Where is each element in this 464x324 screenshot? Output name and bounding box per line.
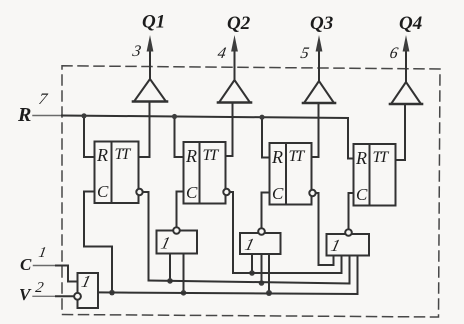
svg-text:C: C — [97, 182, 109, 201]
wire Q1 output with arrow — [149, 50, 151, 78]
wire L3 bus gated clock — [98, 292, 358, 294]
flip-flop TT1 — [95, 142, 139, 204]
svg-text:7: 7 — [37, 91, 49, 108]
wire buffer3 input from TT3 Q — [312, 103, 319, 157]
svg-text:R: R — [271, 147, 283, 167]
svg-text:Q4: Q4 — [399, 13, 422, 34]
svg-text:3: 3 — [130, 43, 142, 60]
junction R-FF1 — [81, 113, 86, 118]
inverter bubble TT3 output — [309, 190, 315, 196]
junction clock-TT1C — [109, 290, 115, 296]
inverter bubble G3 output — [345, 229, 352, 236]
wire R bus — [33, 115, 62, 117]
buffer amplifier 2 — [219, 80, 250, 103]
buffer amplifier 4 — [391, 82, 421, 104]
wire G2 input from L3 — [268, 254, 270, 293]
junction R-FF3 — [259, 115, 264, 120]
svg-text:TT: TT — [203, 147, 220, 164]
flip-flop TT2 — [184, 142, 226, 204]
svg-text:C: C — [272, 184, 284, 203]
svg-text:Q3: Q3 — [310, 13, 333, 34]
flip-flop TT3 — [270, 143, 312, 205]
wire TT1 inverted out to L2 bus — [143, 192, 149, 281]
wire L2 bus TT1 output — [149, 281, 350, 284]
flip-flop TT4 — [354, 144, 396, 206]
svg-text:TT: TT — [115, 146, 132, 163]
svg-text:R: R — [96, 145, 108, 165]
svg-text:C: C — [186, 183, 198, 202]
gate G3 — [327, 234, 370, 256]
wire buffer1 input from TT1 Q — [139, 102, 150, 158]
inverter bubble TT1 output — [136, 189, 142, 195]
junction G2-L3 — [266, 290, 272, 296]
wire G3 input from L3 end — [357, 256, 359, 295]
wire TT2 inverted out to L1 bus — [230, 192, 233, 273]
wire TT2 C input from gate G1 — [177, 192, 184, 228]
inverter bubble G1 output — [173, 227, 180, 234]
junction G2-L2 — [259, 280, 265, 286]
svg-text:R: R — [17, 104, 31, 126]
svg-text:2: 2 — [34, 280, 45, 296]
svg-text:1: 1 — [37, 245, 47, 261]
svg-text:1: 1 — [243, 235, 256, 254]
svg-text:4: 4 — [216, 45, 227, 62]
svg-text:1: 1 — [80, 272, 93, 291]
inverter bubble TT2 output — [223, 189, 229, 195]
gate G1 — [157, 231, 198, 254]
svg-text:C: C — [356, 185, 368, 204]
wire buffer2 input from TT2 Q — [226, 103, 233, 157]
wire V input — [33, 295, 56, 297]
junction G1-L2 — [167, 278, 173, 284]
buffer amplifier 1 — [134, 79, 166, 102]
IC boundary dashed box — [62, 66, 440, 317]
wire Q3 output with arrow — [318, 50, 320, 80]
wire G3 input from L1 end — [341, 256, 343, 274]
wire R drop to FF2 — [175, 116, 184, 158]
wire C input — [34, 265, 57, 267]
wire G1 input from L3 — [183, 254, 185, 293]
wire TT3 C input from gate G2 — [262, 193, 270, 229]
wire L1 bus TT2 output — [233, 272, 342, 274]
wire R drop to FF1 — [84, 115, 95, 157]
svg-text:R: R — [355, 148, 367, 168]
wire G3 input from L2 end — [349, 256, 351, 284]
wire G2 input from L1 — [251, 254, 253, 273]
wire G1 input from L2 — [169, 254, 171, 282]
wire R drop to FF3 — [262, 116, 270, 157]
wire G2 input from L2 — [261, 254, 263, 283]
svg-text:V: V — [19, 285, 32, 304]
wire R drop to FF4 — [348, 118, 354, 159]
svg-text:Q2: Q2 — [227, 13, 251, 34]
svg-text:C: C — [20, 255, 32, 274]
inverter bubble G2 output — [258, 228, 265, 235]
svg-text:1: 1 — [159, 234, 172, 253]
wire TT1 C input staircase from clock bus — [84, 192, 112, 293]
buffer amplifier 3 — [304, 81, 334, 103]
inverter bubble G0 V input — [74, 293, 81, 300]
junction G2-L1 — [249, 270, 255, 276]
svg-text:6: 6 — [388, 45, 399, 62]
gate G0 clock gate — [78, 272, 99, 308]
svg-text:TT: TT — [373, 149, 390, 166]
wire TT3 inverted out to gate G3 input — [316, 193, 334, 265]
gate G2 — [240, 233, 281, 254]
wire TT4 C input from gate G3 — [349, 193, 354, 229]
junction G1-L3 — [181, 290, 187, 296]
svg-text:TT: TT — [289, 148, 306, 165]
svg-text:R: R — [185, 146, 197, 166]
junction R-FF2 — [172, 114, 177, 119]
svg-text:Q1: Q1 — [142, 12, 165, 33]
svg-text:1: 1 — [329, 236, 342, 255]
svg-text:5: 5 — [299, 45, 310, 62]
wire Q4 output with arrow — [405, 50, 407, 81]
wire Q2 output with arrow — [234, 50, 236, 79]
wire buffer4 input from TT4 Q — [396, 104, 406, 160]
